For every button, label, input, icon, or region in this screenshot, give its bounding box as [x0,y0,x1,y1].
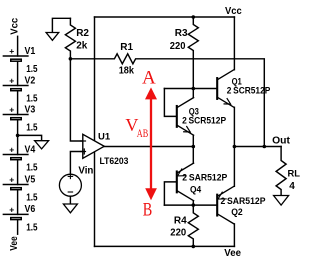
svg-text:+: + [9,76,14,86]
svg-text:4: 4 [289,181,295,192]
svg-text:B: B [143,199,153,220]
svg-text:Vcc: Vcc [225,6,242,17]
svg-text:LT6203: LT6203 [100,156,129,167]
svg-text:2 SAR512P: 2 SAR512P [221,196,267,207]
svg-text:V1: V1 [25,46,36,57]
svg-text:V2: V2 [25,75,36,86]
svg-text:Vee: Vee [224,248,241,259]
svg-text:RL: RL [288,168,301,179]
svg-text:Vin: Vin [78,166,93,177]
svg-text:2 SCR512P: 2 SCR512P [182,116,227,127]
svg-text:AB: AB [137,128,149,140]
svg-text:+: + [9,175,14,185]
svg-text:R4: R4 [174,216,187,227]
svg-text:V4: V4 [25,144,36,155]
svg-text:V5: V5 [25,174,36,185]
svg-text:1.5: 1.5 [26,63,37,75]
svg-text:1.5: 1.5 [26,122,37,134]
svg-text:1.5: 1.5 [26,192,37,204]
svg-text:Out: Out [272,136,290,147]
svg-text:Q2: Q2 [231,207,243,218]
svg-text:220: 220 [170,227,186,238]
svg-text:1.5: 1.5 [26,162,37,174]
svg-text:+: + [9,46,14,56]
svg-text:2k: 2k [76,40,88,51]
svg-text:R1: R1 [120,42,133,53]
svg-text:V3: V3 [25,104,36,115]
svg-text:R3: R3 [175,28,188,39]
svg-text:1.5: 1.5 [26,221,37,233]
svg-text:U1: U1 [98,132,111,143]
svg-text:18k: 18k [119,65,135,76]
svg-text:1.5: 1.5 [26,93,37,105]
svg-text:2 SCR512P: 2 SCR512P [227,86,271,97]
svg-text:2 SAR512P: 2 SAR512P [182,172,228,183]
svg-text:+: + [9,145,14,155]
svg-text:Vee: Vee [9,236,20,251]
svg-text:220: 220 [170,41,186,52]
svg-text:V6: V6 [25,204,36,215]
svg-text:Vcc: Vcc [9,17,20,34]
svg-text:+: + [9,204,14,214]
svg-text:R2: R2 [76,28,89,39]
svg-text:A: A [142,68,156,89]
svg-text:+: + [9,105,14,115]
svg-text:Q4: Q4 [190,184,202,195]
